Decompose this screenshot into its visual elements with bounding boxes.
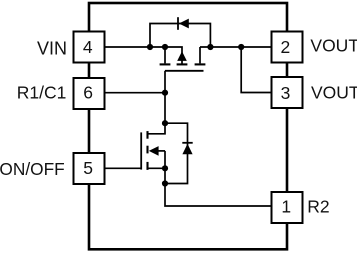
diode D2 cathode bar <box>182 142 192 144</box>
svg-text:6: 6 <box>83 82 93 102</box>
transistor Q2 channel segment top <box>146 131 148 139</box>
transistor Q2 channel segment middle <box>146 146 148 154</box>
transistor Q1 PMOS left contact <box>164 47 166 63</box>
svg-text:ON/OFF: ON/OFF <box>0 159 65 179</box>
wire Q2 body to source to node C <box>164 151 166 184</box>
wire node D down to VOUT pin3 <box>241 47 271 93</box>
pin 6 box <box>74 78 105 109</box>
svg-text:VOUT: VOUT <box>310 36 357 56</box>
wire node C down to R2 pin1 <box>165 184 272 207</box>
svg-text:1: 1 <box>281 196 291 216</box>
svg-text:5: 5 <box>83 158 93 178</box>
junction node Q2 source <box>162 165 168 171</box>
transistor Q1 channel segment middle <box>177 63 188 65</box>
transistor Q1 PMOS right contact <box>199 47 201 63</box>
wire PMOS right contact to VOUT pin2 <box>200 46 272 48</box>
svg-text:4: 4 <box>83 37 93 57</box>
IC body outline U1 <box>89 3 287 249</box>
transistor Q1 body arrow <box>177 51 187 61</box>
transistor Q2 body arrow <box>149 146 159 156</box>
pin 3 box <box>272 77 303 108</box>
wire diode loop over Q1 <box>150 24 210 48</box>
junction node E2 <box>207 44 213 50</box>
wire ON/OFF pin5 to Q2 gate <box>105 167 142 169</box>
diode D1 cathode bar <box>177 17 179 30</box>
wire node A to node B <box>164 93 166 124</box>
junction node at Q1 left contact <box>162 44 168 50</box>
pin 5 box <box>74 153 105 184</box>
wire VIN pin4 to PMOS body arrow drop <box>105 47 183 64</box>
wire R1/C1 pin6 to node A <box>105 92 166 94</box>
junction node D <box>238 44 244 50</box>
wire Q2 source stub <box>148 167 165 169</box>
transistor Q1 gate lead to node A <box>164 71 166 93</box>
diode D2 triangle <box>182 144 192 155</box>
pin 4 box <box>74 32 105 63</box>
pin 2 box <box>272 32 303 63</box>
transistor Q1 channel segment right <box>195 63 206 65</box>
wire Q2 body stub <box>158 150 165 152</box>
svg-text:2: 2 <box>281 37 291 57</box>
svg-text:3: 3 <box>281 83 291 103</box>
svg-text:R1/C1: R1/C1 <box>17 82 67 102</box>
junction node C <box>162 180 168 186</box>
junction node E1 <box>147 44 153 50</box>
transistor Q2 NMOS gate line <box>140 132 142 169</box>
junction node B <box>162 120 168 126</box>
transistor Q1 gate bar <box>165 70 204 72</box>
wire node B to Q2 drain <box>148 123 165 134</box>
pin 1 box <box>272 192 303 223</box>
svg-text:VOUT: VOUT <box>311 82 357 102</box>
svg-text:R2: R2 <box>307 196 329 216</box>
transistor Q2 channel segment bottom <box>146 162 148 170</box>
junction node A <box>162 90 168 96</box>
transistor Q1 channel segment left <box>160 63 171 65</box>
diode D1 triangle <box>179 19 189 29</box>
svg-text:VIN: VIN <box>37 39 67 59</box>
wire node B to diode D2 branch <box>165 123 188 183</box>
